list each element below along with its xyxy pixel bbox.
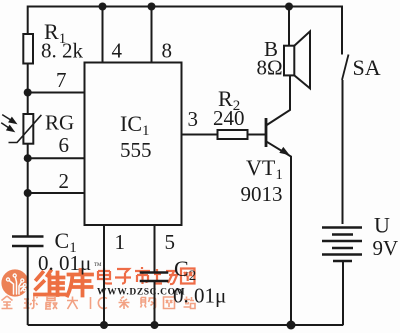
- 电: [98, 268, 112, 284]
- capacitor C2: [140, 271, 169, 273]
- svg-text:3: 3: [188, 107, 199, 131]
- svg-text:0. 01μ: 0. 01μ: [38, 251, 91, 275]
- I: [90, 297, 92, 309]
- wire R2 to base: [248, 134, 267, 136]
- wire pin 6: [28, 157, 85, 159]
- resistor R1: [23, 34, 33, 64]
- 大: [67, 297, 78, 310]
- 采: [119, 297, 130, 310]
- svg-text:WWW.DZSC.COM: WWW.DZSC.COM: [97, 288, 185, 298]
- wire pin 7: [28, 92, 85, 94]
- svg-text:TM: TM: [94, 263, 102, 268]
- svg-text:5: 5: [165, 230, 176, 254]
- wire pin 1: [103, 225, 105, 325]
- svg-text:SA: SA: [353, 55, 381, 80]
- switch SA blade: [342, 55, 349, 81]
- 市: [135, 267, 150, 284]
- svg-text:2: 2: [59, 169, 70, 193]
- wire pin 2: [28, 192, 85, 194]
- svg-text:6: 6: [59, 133, 70, 157]
- 站: [184, 297, 196, 309]
- wire pin 3: [182, 134, 218, 136]
- RG diagonal stroke: [9, 115, 42, 143]
- 全: [2, 296, 13, 309]
- speaker B cone: [294, 31, 310, 88]
- junction node top pin4: [99, 3, 107, 11]
- watermark 电子市场网: [98, 267, 195, 284]
- watermark bottom row 全球最大IC采购网站: [2, 296, 196, 309]
- junction node pin2: [24, 189, 32, 197]
- junction node top pin8: [148, 3, 156, 11]
- IC1 555 box: [85, 63, 182, 226]
- battery U plates: [322, 226, 362, 228]
- 子: [115, 269, 131, 284]
- svg-text:0. 01μ: 0. 01μ: [173, 284, 226, 308]
- 维: [35, 273, 45, 295]
- speaker B driver box: [284, 46, 294, 76]
- transistor VT1 collector: [266, 75, 290, 125]
- svg-text:8. 2k: 8. 2k: [41, 39, 84, 63]
- 网: [164, 297, 175, 309]
- svg-text:9V: 9V: [373, 236, 399, 260]
- svg-text:9013: 9013: [241, 182, 283, 206]
- transistor VT1 emitter: [266, 141, 291, 325]
- wire bottom rail: [28, 324, 344, 326]
- watermark 维库: [35, 270, 92, 296]
- wire pin 5 to C2: [154, 225, 156, 273]
- junction node pin7: [24, 89, 32, 97]
- svg-text:8Ω: 8Ω: [257, 56, 283, 80]
- svg-text:RG: RG: [45, 111, 74, 135]
- wire pin 4: [102, 7, 104, 63]
- junction node top speaker: [285, 3, 293, 11]
- junction node bottom emitter: [287, 321, 296, 330]
- 场: [154, 269, 177, 284]
- svg-text:7: 7: [56, 68, 67, 92]
- transistor VT1 base bar: [265, 118, 268, 147]
- svg-text:1: 1: [115, 230, 126, 254]
- junction node bottom C2: [151, 321, 159, 329]
- svg-text:8: 8: [162, 39, 173, 63]
- transistor VT1 emitter arrowhead: [279, 147, 290, 155]
- wire battery to bottom rail: [342, 261, 344, 325]
- wire C2 to bottom rail: [154, 281, 156, 325]
- 购: [141, 298, 156, 309]
- resistor R2: [218, 130, 248, 139]
- 网: [181, 269, 195, 284]
- svg-text:240: 240: [213, 106, 245, 130]
- wire left: RG down to C1: [27, 144, 29, 237]
- svg-text:4: 4: [112, 39, 123, 63]
- junction node pin6: [24, 154, 32, 162]
- 最: [45, 297, 58, 310]
- C: [98, 298, 107, 309]
- junction node bottom pin1: [100, 321, 108, 329]
- wire top rail: [28, 7, 342, 55]
- wire SA to battery: [342, 80, 344, 224]
- speaker B wire from top rail: [288, 7, 290, 46]
- RG light arrows: [1, 115, 16, 132]
- wire left: R1 to RG: [27, 64, 29, 115]
- wire pin 8: [151, 7, 153, 63]
- wire left: C1 to bottom rail: [27, 246, 29, 325]
- capacitor C1: [12, 235, 44, 237]
- svg-text:555: 555: [120, 138, 152, 162]
- photoresistor RG body: [23, 114, 33, 144]
- svg-text:U: U: [374, 213, 390, 238]
- 库: [68, 270, 93, 296]
- watermark logo circle: [1, 263, 195, 309]
- 球: [24, 297, 38, 309]
